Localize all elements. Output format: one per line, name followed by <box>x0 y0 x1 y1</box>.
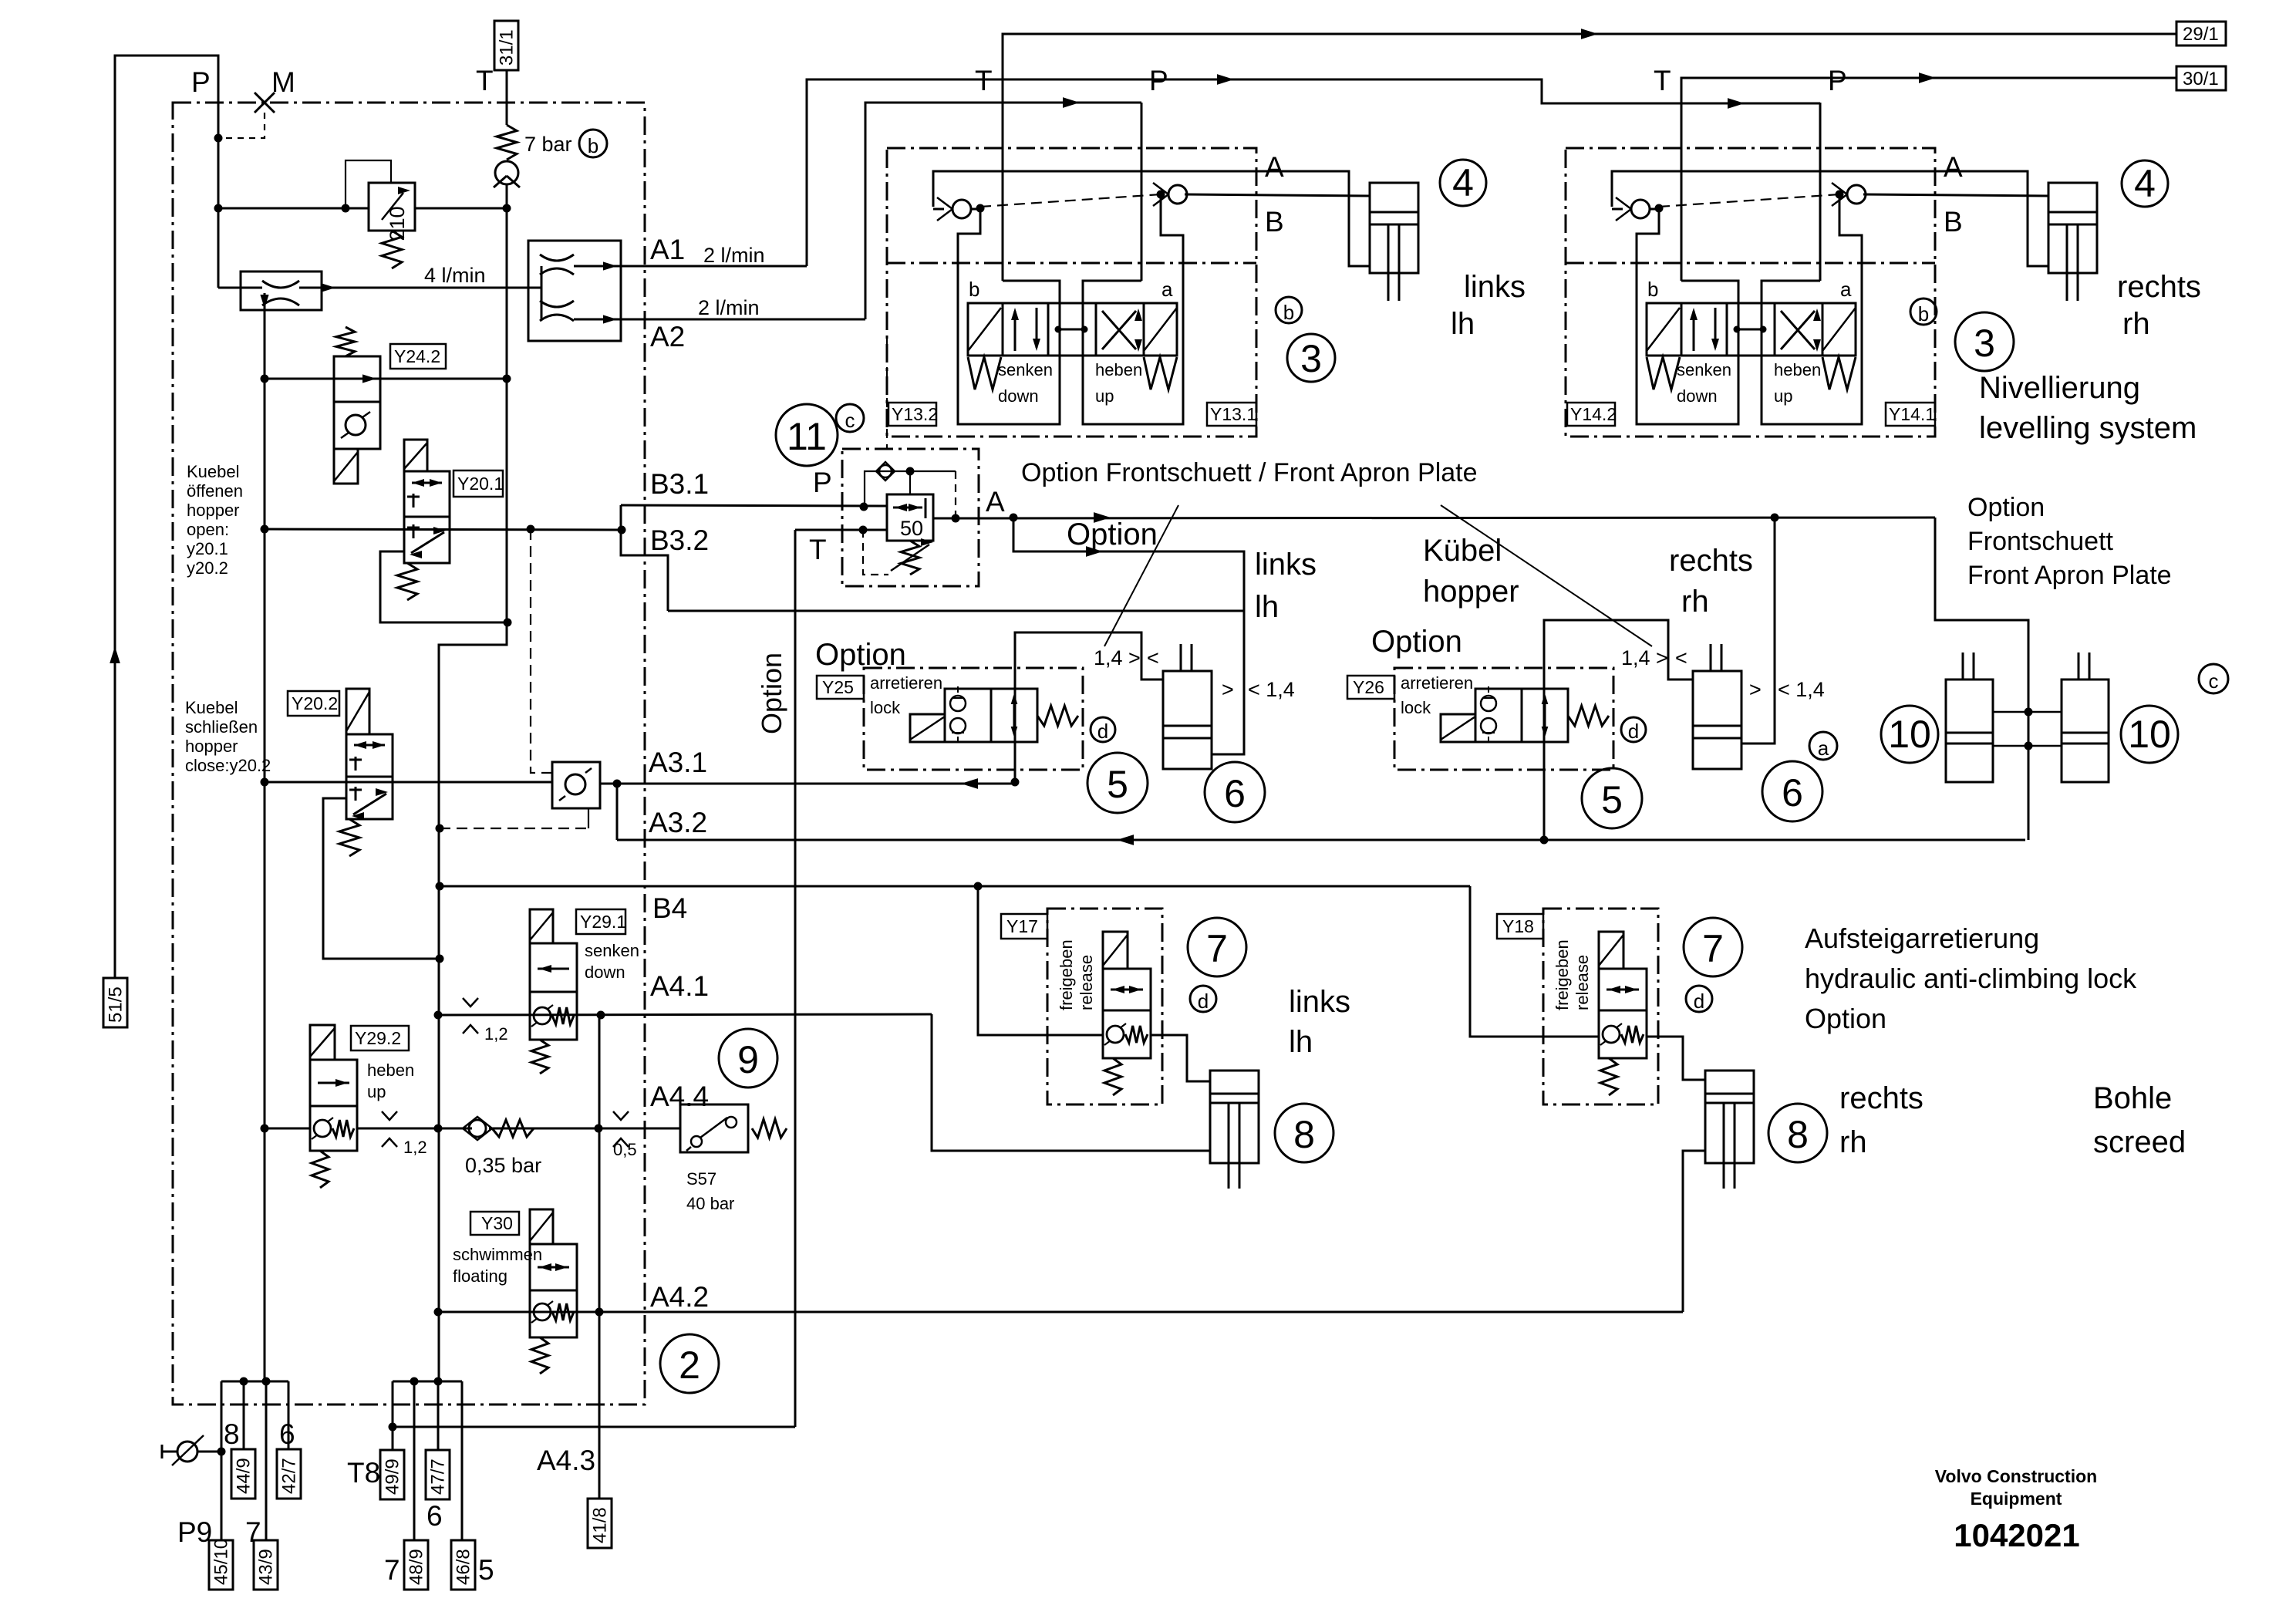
svg-text:B3.1: B3.1 <box>650 468 709 500</box>
circle 10 right <box>2121 706 2178 763</box>
spring right <box>1144 357 1177 389</box>
svg-text:senken: senken <box>998 360 1053 379</box>
connector 30/1 <box>2176 66 2226 90</box>
svg-text:< 1,4: < 1,4 <box>1778 678 1825 701</box>
measuring point <box>161 1445 164 1458</box>
valve arrows parallel <box>1693 311 1695 351</box>
svg-text:Kuebel: Kuebel <box>187 462 240 481</box>
wire: return line down <box>438 959 440 1381</box>
wire: heben line <box>266 1128 310 1130</box>
svg-text:screed: screed <box>2093 1125 2186 1159</box>
arrow out of flow control down <box>264 293 266 310</box>
circle (b) top <box>579 130 607 157</box>
pilot dashed wire from M to P line <box>223 113 265 138</box>
release valve spring below <box>1600 1058 1617 1095</box>
svg-text:9: 9 <box>737 1038 759 1081</box>
svg-text:Option: Option <box>1805 1003 1886 1034</box>
svg-text:down: down <box>585 963 625 982</box>
circle 4 links <box>1440 160 1486 206</box>
wire: T feed <box>1002 139 1004 281</box>
spring below 210 valve <box>382 231 402 268</box>
svg-text:lh: lh <box>1451 307 1475 341</box>
valve Y30 solenoid <box>530 1209 553 1244</box>
svg-text:senken: senken <box>1677 360 1731 379</box>
orifice symbol 1,2 (A4.1) <box>463 998 478 1034</box>
check valve 0,35 bar <box>463 1117 492 1140</box>
levelling valve dash-dot enclosure <box>1566 148 1935 437</box>
pressure reducing valve 50 <box>887 494 933 541</box>
valve arrows crossed <box>1102 311 1136 349</box>
svg-text:a: a <box>1818 737 1829 760</box>
wire: 4 l/min line to divider <box>299 287 528 289</box>
svg-text:b: b <box>1283 301 1294 324</box>
svg-text:lock: lock <box>870 698 901 717</box>
svg-text:Aufsteigarretierung: Aufsteigarretierung <box>1805 922 2039 954</box>
svg-text:49/9: 49/9 <box>383 1458 403 1495</box>
svg-text:Y25: Y25 <box>822 677 854 697</box>
wire: a channel <box>1083 194 1183 424</box>
label box Y13.1 <box>1207 403 1256 426</box>
svg-text:0,35 bar: 0,35 bar <box>465 1154 541 1177</box>
svg-text:A3.1: A3.1 <box>649 747 707 778</box>
lock valve spring <box>1568 706 1609 726</box>
circle 5 links <box>1087 753 1148 813</box>
svg-text:heben: heben <box>1095 360 1142 379</box>
svg-text:P: P <box>191 66 211 98</box>
svg-text:links: links <box>1289 985 1350 1019</box>
wire: B3 step <box>621 505 668 611</box>
valve Y29.2 solenoid <box>310 1025 335 1060</box>
svg-text:7: 7 <box>1702 927 1724 970</box>
valve arrows parallel <box>1014 311 1017 351</box>
wire: A2 to P of Y13 <box>865 103 1141 319</box>
cylinder 8 rechts <box>1705 1071 1754 1163</box>
svg-text:42/7: 42/7 <box>279 1458 300 1494</box>
lock valve arrows <box>1544 696 1546 734</box>
svg-text:y20.2: y20.2 <box>187 558 228 578</box>
svg-text:P: P <box>813 467 832 498</box>
svg-text:< 1,4: < 1,4 <box>1248 678 1295 701</box>
connector 45/10 <box>209 1540 233 1590</box>
wire: A4.3 tank return <box>393 1426 795 1428</box>
svg-text:T: T <box>809 534 827 565</box>
wire: outer P supply top-left <box>115 56 218 978</box>
wire: T line continues down <box>506 184 508 622</box>
cylinder hopper rechts <box>1693 671 1741 769</box>
svg-text:2 l/min: 2 l/min <box>703 244 765 267</box>
circle (c) near 11 <box>836 404 864 432</box>
pointer line to restrictor rechts <box>1441 505 1652 646</box>
valve Y29.1 solenoid <box>530 909 553 943</box>
wire: cross connections between 10 cylinders <box>1993 711 2062 713</box>
svg-text:freigeben: freigeben <box>1057 939 1076 1010</box>
svg-text:A4.2: A4.2 <box>650 1281 709 1313</box>
svg-text:11: 11 <box>787 415 827 458</box>
valve Y24.2 solenoid <box>334 449 358 484</box>
svg-text:51/5: 51/5 <box>106 986 126 1023</box>
svg-text:T8: T8 <box>347 1457 380 1489</box>
svg-text:c: c <box>2209 669 2219 693</box>
pilot rect with check diamond <box>865 471 956 507</box>
svg-text:A3.2: A3.2 <box>649 807 707 838</box>
svg-text:A: A <box>1944 151 1963 183</box>
node dots on T line <box>503 204 511 213</box>
wire: valve 50 A output long Option line <box>933 518 1935 518</box>
svg-text:lock: lock <box>1401 698 1431 717</box>
spring + arrow below valve 50 <box>901 541 919 575</box>
wire: B4 to Y18 <box>1470 886 1599 1037</box>
svg-text:Y14.1: Y14.1 <box>1889 404 1935 424</box>
svg-text:heben: heben <box>1774 360 1821 379</box>
svg-text:43/9: 43/9 <box>256 1549 277 1585</box>
circle 10 left <box>1881 706 1938 763</box>
circle (d) <box>1621 717 1646 742</box>
svg-text:1,4 >: 1,4 > <box>1621 646 1668 669</box>
circle (a) <box>1809 732 1837 760</box>
svg-text:Y26: Y26 <box>1353 677 1384 697</box>
svg-text:5: 5 <box>478 1554 494 1586</box>
svg-text:4: 4 <box>1452 161 1474 204</box>
circle 3 links <box>1287 334 1335 382</box>
svg-text:10: 10 <box>2128 713 2171 756</box>
label box Y29.1 <box>576 909 625 934</box>
wire: left connector bus <box>221 1381 288 1383</box>
svg-text:10: 10 <box>1888 713 1931 756</box>
svg-text:1,2: 1,2 <box>403 1138 427 1157</box>
svg-text:<: < <box>1675 646 1687 669</box>
svg-text:50: 50 <box>900 517 923 540</box>
pilot dashed wire to A3.1 check <box>531 529 552 773</box>
circle 11 <box>776 404 838 466</box>
circle (d) <box>1190 986 1216 1012</box>
svg-text:Y13.1: Y13.1 <box>1210 404 1256 424</box>
svg-text:Kuebel: Kuebel <box>185 698 238 717</box>
wire legs left group <box>221 1381 223 1540</box>
wire: Y26 riser to A3.2 <box>1544 620 1693 840</box>
wire: P branch down the manifold <box>264 310 266 1381</box>
directional valve 4/3 body <box>1647 303 1856 356</box>
node: P junction dot <box>214 134 223 143</box>
release valve body <box>1103 969 1151 1010</box>
wire: Y17 to cylinder 8 links <box>1151 1035 1210 1081</box>
wire B port <box>1863 194 2048 196</box>
svg-text:6: 6 <box>426 1500 443 1532</box>
check valve on A3.1 <box>552 762 600 808</box>
circle 8 links <box>1275 1104 1333 1162</box>
pointer line to restrictor links <box>1104 505 1178 646</box>
circle (b) links <box>1276 297 1302 323</box>
svg-text:7: 7 <box>1206 927 1228 970</box>
svg-text:30/1: 30/1 <box>2183 69 2219 89</box>
svg-text:1,2: 1,2 <box>484 1024 508 1044</box>
valve Y29.1 spring below <box>531 1040 548 1074</box>
lock valve solenoid <box>1441 714 1475 742</box>
wire: Option vertical (T drain to A4.3) <box>794 530 797 1427</box>
lock valve solenoid <box>910 714 945 742</box>
wire: A3.1 to A3.2 step <box>616 784 619 840</box>
release valve spring below <box>1104 1058 1121 1095</box>
cylinder levelling <box>2048 183 2097 273</box>
pressure switch S57 <box>680 1104 748 1152</box>
svg-text:d: d <box>1198 990 1209 1013</box>
svg-text:rechts: rechts <box>1839 1081 1923 1115</box>
svg-text:rh: rh <box>2122 307 2150 341</box>
wire: cylinder links bottom port <box>1212 754 1244 756</box>
wire A3.1 <box>265 781 552 784</box>
wire B4 <box>440 885 1470 888</box>
svg-text:<: < <box>1147 646 1159 669</box>
valve Y29.2 body <box>310 1060 357 1106</box>
svg-text:Option: Option <box>756 653 787 734</box>
svg-text:7: 7 <box>384 1554 400 1586</box>
circle 5 rechts <box>1582 768 1642 828</box>
svg-text:down: down <box>998 386 1039 406</box>
label box Y25 <box>817 676 864 699</box>
orifice symbol 0,5 <box>613 1111 629 1147</box>
wire: Frontschuett option corner <box>1935 518 2028 840</box>
directional valve 4/3 body <box>968 303 1177 356</box>
wire: T of Y14 to connector 30/1 <box>1681 78 2176 139</box>
release valve dash-dot box <box>1543 909 1658 1104</box>
valve arrows crossed <box>1781 311 1815 349</box>
label box Y26 <box>1347 676 1394 699</box>
valve Y30 spring below <box>531 1337 548 1374</box>
svg-text:45/10: 45/10 <box>211 1539 232 1585</box>
svg-text:M: M <box>271 66 295 98</box>
wire: Y25 riser to A3.1 <box>1015 632 1163 784</box>
svg-text:rechts: rechts <box>1669 544 1753 578</box>
svg-text:Option: Option <box>1967 493 2045 522</box>
svg-text:Bohle: Bohle <box>2093 1081 2172 1115</box>
svg-text:Y24.2: Y24.2 <box>394 346 440 366</box>
svg-text:release: release <box>1573 955 1592 1010</box>
valve Y20.2 body <box>346 734 393 819</box>
svg-text:links: links <box>1464 270 1526 304</box>
svg-text:B: B <box>1265 206 1284 238</box>
wire: P into flow control <box>218 287 262 289</box>
release valve solenoid <box>1599 932 1623 969</box>
cylinder levelling <box>1370 183 1418 273</box>
wire: a channel <box>1762 194 1862 424</box>
pilot cross dashed wire <box>1659 194 1839 207</box>
lock valve spring <box>1037 706 1078 726</box>
svg-text:B: B <box>1944 206 1963 238</box>
label box Y20.1 <box>453 470 503 497</box>
cylinder hopper links <box>1163 671 1212 769</box>
svg-text:Y20.2: Y20.2 <box>292 693 338 713</box>
pilot check valve b-side <box>933 208 944 211</box>
valve center closed <box>1058 329 1084 331</box>
svg-text:senken: senken <box>585 941 639 960</box>
wire A3.2 long line <box>617 839 2025 841</box>
svg-text:T: T <box>476 65 494 96</box>
circle 4 rechts <box>2122 160 2168 207</box>
connector 31/1 <box>494 21 518 70</box>
wire: hopper-open line (B3.2 net) <box>265 529 622 530</box>
solenoid b <box>968 308 1001 351</box>
pressure relief valve 210 <box>369 183 415 231</box>
svg-text:A: A <box>986 486 1005 518</box>
spring right <box>1822 357 1856 389</box>
release valve solenoid <box>1103 932 1128 969</box>
connector 46/8 <box>451 1540 475 1590</box>
lock valve body <box>1475 689 1568 742</box>
label box Y13.2 <box>888 403 936 426</box>
svg-text:y20.1: y20.1 <box>187 539 228 558</box>
wire A4.2 <box>438 1311 1683 1313</box>
arrow on left supply line <box>110 646 120 663</box>
pilot dashed wire from A2 to valve 50 block <box>886 321 888 449</box>
label box Y30 <box>470 1212 519 1235</box>
relief valve 7 bar check ball <box>495 161 518 184</box>
valve Y20.2 spring <box>339 819 359 856</box>
svg-text:Option: Option <box>1371 625 1462 659</box>
svg-text:hopper: hopper <box>187 501 240 520</box>
svg-text:rh: rh <box>1839 1125 1867 1159</box>
svg-text:3: 3 <box>1974 322 1995 365</box>
pilot dashed wire below check <box>440 828 588 829</box>
svg-text:46/8: 46/8 <box>453 1549 474 1585</box>
svg-text:Y29.1: Y29.1 <box>580 912 626 932</box>
svg-text:0,5: 0,5 <box>613 1140 637 1159</box>
connector 48/9 <box>404 1540 428 1590</box>
svg-text:Y18: Y18 <box>1502 916 1534 936</box>
valve Y20.1 body <box>404 471 450 563</box>
svg-text:2 l/min: 2 l/min <box>698 296 760 319</box>
svg-text:Option: Option <box>1067 518 1158 551</box>
svg-text:arretieren: arretieren <box>1401 673 1473 693</box>
valve Y29.1 body <box>530 943 577 992</box>
connector 42/7 <box>277 1449 301 1499</box>
label box Y14.1 <box>1886 403 1935 426</box>
svg-text:>: > <box>1749 678 1762 701</box>
wire: A4.2 to cylinder 8 rechts bottom <box>1683 1151 1705 1312</box>
svg-text:Y30: Y30 <box>481 1213 513 1233</box>
label box Y18 <box>1497 914 1543 939</box>
wire: T jog down to return line <box>439 622 507 959</box>
wire: long hopper supply line <box>668 610 1244 612</box>
svg-text:floating: floating <box>453 1266 507 1286</box>
svg-text:41/8: 41/8 <box>590 1507 611 1543</box>
lock valve dash-dot box <box>1394 668 1613 770</box>
circle 6 rechts <box>1762 761 1822 821</box>
wire A4.1 <box>438 1014 932 1015</box>
wire through Y24.2 <box>265 378 507 380</box>
svg-text:1,4 >: 1,4 > <box>1094 646 1141 669</box>
svg-text:8: 8 <box>224 1418 240 1450</box>
svg-text:up: up <box>367 1082 386 1101</box>
valve center closed <box>1737 329 1763 331</box>
circle (d) <box>1686 986 1712 1012</box>
release valve body <box>1599 969 1647 1010</box>
svg-text:hydraulic anti-climbing lock: hydraulic anti-climbing lock <box>1805 963 2137 994</box>
svg-text:8: 8 <box>1293 1113 1315 1156</box>
circle (b) rechts <box>1910 298 1937 325</box>
svg-text:hopper: hopper <box>1423 575 1519 609</box>
svg-text:links: links <box>1255 548 1317 582</box>
valve Y29.1 check cell <box>530 992 577 1040</box>
label box Y20.2 <box>288 691 339 716</box>
wire A2 output <box>621 319 865 321</box>
valve Y20.1 spring <box>397 563 417 600</box>
wire: 41/8 drop <box>598 1015 601 1499</box>
circle 8 rechts <box>1768 1104 1827 1162</box>
svg-text:up: up <box>1774 386 1792 406</box>
svg-text:open:: open: <box>187 520 229 539</box>
cylinder 10 right <box>2062 679 2109 782</box>
circle 7 <box>1684 918 1742 976</box>
connector 44/9 <box>231 1449 255 1499</box>
connector 29/1 <box>2176 22 2226 46</box>
svg-text:4: 4 <box>2134 162 2156 205</box>
valve Y20.2 frame <box>323 798 440 959</box>
spring left <box>1647 357 1680 389</box>
pilot check valve a-side <box>1847 185 1866 204</box>
levelling valve dash-dot enclosure <box>887 148 1256 437</box>
wire: Y18 to cylinder 8 rechts <box>1647 1037 1705 1080</box>
svg-text:5: 5 <box>1601 778 1623 821</box>
svg-text:Y14.2: Y14.2 <box>1570 404 1617 424</box>
cylinder 10 left <box>1946 679 1993 782</box>
wire A port <box>1612 171 2048 266</box>
flow control valve 4 l/min <box>241 271 322 310</box>
svg-text:31/1: 31/1 <box>497 29 518 66</box>
label box Y14.2 <box>1567 403 1615 426</box>
wire: A1 to P of Y14 <box>807 79 1820 266</box>
orifice symbol 1,2 (heben) <box>382 1111 397 1147</box>
svg-text:S57: S57 <box>686 1169 716 1189</box>
connector 43/9 <box>254 1540 278 1590</box>
wire: T feed <box>1681 139 1683 281</box>
wire B3.1 to valve 50 <box>621 505 887 506</box>
svg-text:B4: B4 <box>652 892 687 924</box>
valve Y24.2 spring <box>336 327 355 356</box>
svg-text:schließen: schließen <box>185 717 258 737</box>
svg-text:P9: P9 <box>177 1516 212 1548</box>
circle 7 <box>1188 918 1246 976</box>
wire: cylinder rechts bottom port to Option line <box>1741 518 1775 744</box>
solenoid a <box>1822 308 1856 351</box>
svg-text:lh: lh <box>1255 590 1279 624</box>
label box Y29.2 <box>351 1026 409 1050</box>
svg-text:down: down <box>1677 386 1718 406</box>
release valve check cell <box>1103 1010 1151 1058</box>
svg-text:Volvo Construction: Volvo Construction <box>1935 1466 2097 1486</box>
node M (plugged port X) <box>255 93 275 113</box>
svg-text:4 l/min: 4 l/min <box>424 264 486 287</box>
svg-text:levelling system: levelling system <box>1979 411 2197 445</box>
pilot check valve a-side <box>1168 185 1187 204</box>
wire: b channel <box>958 208 1060 424</box>
svg-text:c: c <box>845 409 855 432</box>
svg-text:6: 6 <box>1224 772 1246 815</box>
svg-text:close:y20.2: close:y20.2 <box>185 756 271 775</box>
circle 9 <box>719 1029 777 1088</box>
main manifold dash-dot frame <box>173 103 645 1404</box>
svg-text:Y29.2: Y29.2 <box>355 1028 401 1048</box>
svg-text:6: 6 <box>1782 771 1803 814</box>
svg-text:7 bar: 7 bar <box>524 133 572 156</box>
wire A1 output <box>621 265 807 268</box>
release valve dash-dot box <box>1047 909 1162 1104</box>
svg-text:Frontschuett: Frontschuett <box>1967 527 2114 556</box>
svg-text:Nivellierung: Nivellierung <box>1979 371 2140 405</box>
svg-text:40 bar: 40 bar <box>686 1194 734 1213</box>
svg-text:b: b <box>1647 278 1658 301</box>
arrow inside 210 valve <box>382 193 403 220</box>
connector 41/8 <box>588 1499 612 1548</box>
label box Y24.2 <box>390 344 446 369</box>
